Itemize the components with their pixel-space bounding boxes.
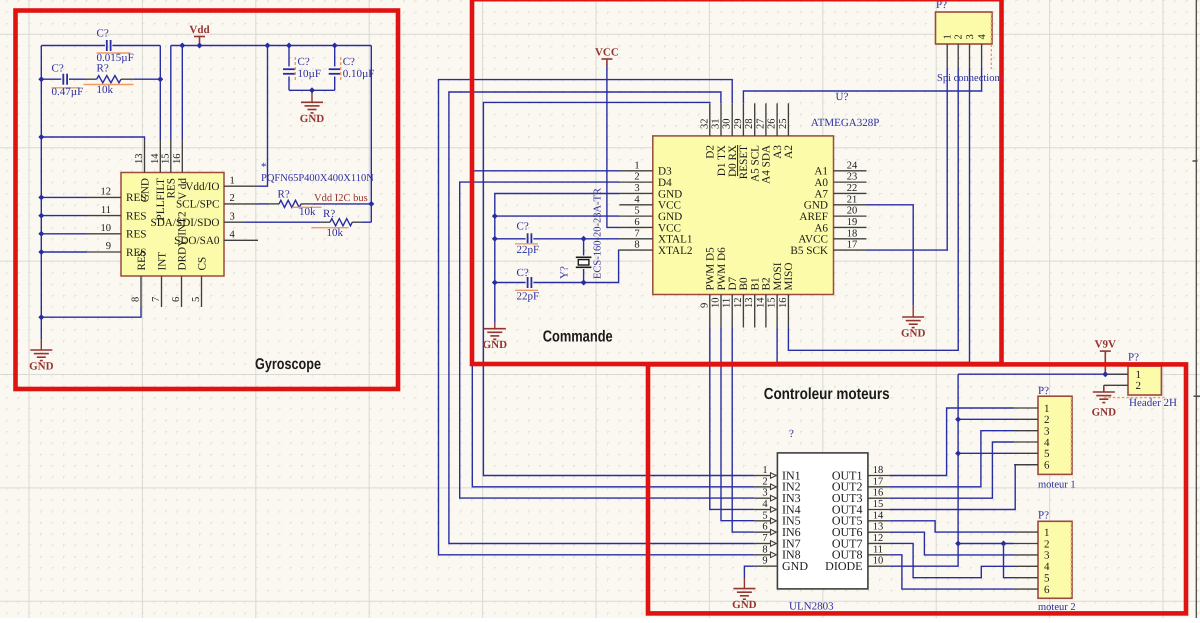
svg-text:8: 8 xyxy=(634,240,639,251)
frame Gyroscope section xyxy=(16,11,399,390)
svg-text:Vdd I2C bus: Vdd I2C bus xyxy=(314,193,368,204)
svg-text:32: 32 xyxy=(699,119,710,130)
transistor array ULN2803 body xyxy=(777,453,868,589)
junction dots moteurs xyxy=(955,416,961,422)
resistor R? 10k (SCL pullup) xyxy=(268,203,279,205)
svg-text:7: 7 xyxy=(634,228,639,239)
svg-text:6: 6 xyxy=(634,217,639,228)
svg-text:ECS-160-20-23A-TR: ECS-160-20-23A-TR xyxy=(593,188,604,279)
svg-text:17: 17 xyxy=(847,240,858,251)
capacitor C? 0.10uF xyxy=(334,46,336,67)
sheet border zone tick upper xyxy=(1193,160,1198,162)
svg-text:Spi connection: Spi connection xyxy=(937,73,1000,84)
frame Controleur moteurs section xyxy=(648,364,1186,613)
svg-text:PWM D5: PWM D5 xyxy=(705,247,717,291)
svg-text:A6: A6 xyxy=(814,222,828,234)
svg-text:RES: RES xyxy=(126,229,147,241)
wire OUT4 to moteur1 pin6 xyxy=(889,465,1038,510)
wire V9V to moteur1 pin5 xyxy=(958,452,1014,454)
svg-text:5: 5 xyxy=(1044,448,1050,460)
svg-text:C?: C? xyxy=(52,63,64,75)
svg-text:3: 3 xyxy=(230,211,235,222)
svg-text:C?: C? xyxy=(517,267,529,279)
svg-text:22: 22 xyxy=(847,183,858,194)
svg-text:RESET: RESET xyxy=(738,145,750,179)
wire Vdd rail right segment xyxy=(171,45,371,47)
svg-text:27: 27 xyxy=(755,119,766,130)
svg-text:2: 2 xyxy=(634,172,639,183)
svg-text:20: 20 xyxy=(847,206,858,217)
svg-text:6: 6 xyxy=(762,522,767,533)
gyro IC right pins 1 2 3 4 xyxy=(224,185,258,187)
svg-text:4: 4 xyxy=(977,34,988,40)
svg-text:16: 16 xyxy=(873,488,884,499)
svg-text:Commande: Commande xyxy=(543,329,613,346)
svg-text:26: 26 xyxy=(767,119,778,130)
svg-text:GND: GND xyxy=(139,178,151,202)
svg-text:28: 28 xyxy=(744,119,755,130)
svg-text:D1 TX: D1 TX xyxy=(716,145,728,176)
wire XTAL2 jog row with 22pF xyxy=(533,250,619,282)
svg-text:VCC: VCC xyxy=(658,222,681,234)
svg-text:5: 5 xyxy=(1044,573,1050,585)
svg-text:12: 12 xyxy=(873,533,884,544)
svg-text:MOSI: MOSI xyxy=(772,262,784,290)
svg-text:1: 1 xyxy=(634,160,639,171)
wire OUT8 to moteur2 pin6 xyxy=(889,555,1014,589)
svg-text:D3: D3 xyxy=(658,166,672,178)
svg-text:?: ? xyxy=(789,428,794,440)
svg-text:11: 11 xyxy=(873,544,883,555)
svg-text:A5 SCL: A5 SCL xyxy=(750,145,762,182)
wire OUT6 to moteur2 pin3 xyxy=(889,532,1014,555)
wire OUT5 to moteur2 pin1 xyxy=(889,521,1014,532)
ULN right pins OUT1-OUT8 DIODE xyxy=(868,475,890,477)
svg-text:B2: B2 xyxy=(761,277,773,290)
wire Vdd/IO pin1 to rail xyxy=(258,46,268,187)
svg-text:Y?: Y? xyxy=(559,266,571,279)
wire D3 net: pin1 to IN2 xyxy=(472,171,754,487)
svg-text:6: 6 xyxy=(171,297,182,302)
wire pin8 to ground rail xyxy=(41,307,141,317)
connector P? SPI xyxy=(936,12,993,44)
svg-text:15: 15 xyxy=(767,298,778,309)
connector P? moteur 2 xyxy=(1038,521,1072,598)
svg-text:VCC: VCC xyxy=(595,47,619,59)
svg-text:1: 1 xyxy=(762,465,767,476)
svg-text:B5 SCK: B5 SCK xyxy=(790,245,828,257)
svg-text:6: 6 xyxy=(1044,584,1050,596)
wire Vdd rail top (gyroscope) xyxy=(41,45,105,47)
svg-text:13: 13 xyxy=(134,154,145,165)
svg-text:5: 5 xyxy=(191,297,202,302)
wire D4 net: pin2 to IN3 xyxy=(460,182,755,498)
wire SCL/SPC pin2 row xyxy=(258,203,268,205)
svg-text:31: 31 xyxy=(711,119,722,130)
svg-text:GND: GND xyxy=(300,113,325,125)
wire pin14 vertical xyxy=(159,46,161,140)
svg-text:GND: GND xyxy=(658,188,682,200)
ground GND (decoupling) xyxy=(311,90,313,102)
wire MISO net pin16 to SPI pin2 xyxy=(788,68,958,350)
ground GND (gyroscope) xyxy=(40,317,42,339)
svg-text:Gyroscope: Gyroscope xyxy=(255,356,321,373)
svg-text:PQFN65P400X400X110N: PQFN65P400X400X110N xyxy=(261,173,374,184)
svg-text:3: 3 xyxy=(1044,550,1050,562)
svg-text:2: 2 xyxy=(1044,538,1050,550)
svg-text:A0: A0 xyxy=(814,177,828,189)
svg-text:V9V: V9V xyxy=(1095,339,1116,351)
svg-text:2: 2 xyxy=(1044,414,1050,426)
wire pin15 vertical xyxy=(170,46,172,140)
svg-text:14: 14 xyxy=(755,297,766,308)
svg-text:30: 30 xyxy=(722,119,733,130)
svg-text:3: 3 xyxy=(965,34,976,39)
svg-text:R?: R? xyxy=(323,208,335,220)
ground GND (ULN) xyxy=(743,578,745,589)
svg-text:GND: GND xyxy=(483,339,508,351)
svg-text:B0: B0 xyxy=(738,277,750,290)
ATmega right pins 24-17 xyxy=(834,170,867,172)
svg-text:GND: GND xyxy=(1092,407,1117,419)
svg-text:2: 2 xyxy=(230,193,235,204)
svg-text:1: 1 xyxy=(1044,527,1050,539)
svg-text:1: 1 xyxy=(1044,403,1050,415)
wire DIODE to V9V net xyxy=(889,374,958,566)
RESET pin overline xyxy=(737,145,739,176)
svg-text:A4 SDA: A4 SDA xyxy=(761,145,773,184)
svg-text:6: 6 xyxy=(1044,459,1050,471)
svg-text:P?: P? xyxy=(1128,352,1139,364)
wire filter row 0.47uF/10k xyxy=(41,78,61,80)
svg-text:C?: C? xyxy=(97,28,109,40)
svg-text:*: * xyxy=(261,161,267,173)
svg-text:5: 5 xyxy=(762,510,767,521)
wire moteur2 pin2 to pin5 xyxy=(1004,544,1015,578)
svg-text:9: 9 xyxy=(699,303,710,308)
svg-text:10k: 10k xyxy=(327,227,344,239)
svg-text:P?: P? xyxy=(1038,385,1049,397)
svg-text:DRDY/INT2: DRDY/INT2 xyxy=(176,211,188,270)
svg-text:A2: A2 xyxy=(783,145,795,159)
svg-text:DIODE: DIODE xyxy=(825,559,862,573)
svg-text:V dd: V dd xyxy=(177,178,189,200)
wire V9V to moteur1 pin2 xyxy=(958,418,1014,420)
svg-text:PWM D6: PWM D6 xyxy=(716,247,728,291)
svg-text:1: 1 xyxy=(943,34,954,39)
capacitor C? 10uF xyxy=(288,46,290,67)
svg-text:Header 2H: Header 2H xyxy=(1129,397,1177,409)
crystal Y? ECS-160-20-23A-TR xyxy=(583,239,585,256)
svg-text:14: 14 xyxy=(150,153,161,164)
wire MOSI net pin15 to SPI pin3 xyxy=(777,68,969,363)
svg-text:CS: CS xyxy=(196,257,208,271)
svg-text:10: 10 xyxy=(101,223,112,234)
svg-text:RES: RES xyxy=(166,178,178,199)
wire D1 TX net: pin31 to IN7 xyxy=(449,92,755,544)
svg-text:A1: A1 xyxy=(814,166,828,178)
junction dots Commande xyxy=(492,213,498,219)
wire pin13 net xyxy=(41,137,144,140)
gyro IC left pins 12 11 10 9 xyxy=(87,196,121,198)
svg-text:A3: A3 xyxy=(772,145,784,159)
svg-text:7: 7 xyxy=(151,297,162,302)
svg-text:0.47µF: 0.47µF xyxy=(52,86,84,98)
svg-text:B1: B1 xyxy=(750,277,762,290)
svg-text:0.10µF: 0.10µF xyxy=(343,68,375,80)
svg-text:15: 15 xyxy=(873,499,884,510)
svg-text:GND: GND xyxy=(782,559,808,573)
wire right vertical to I2C pullups xyxy=(370,46,372,223)
wire resistor to pin14 column xyxy=(133,78,160,80)
svg-text:2: 2 xyxy=(762,476,767,487)
svg-text:GND: GND xyxy=(901,328,926,340)
sheet border zone tick lower xyxy=(1194,395,1200,397)
svg-text:AVCC: AVCC xyxy=(798,234,828,246)
svg-text:XTAL2: XTAL2 xyxy=(658,245,693,257)
connector P? Header 2H xyxy=(1128,366,1161,395)
wire OUT2 to moteur1 pin3 xyxy=(889,431,1014,487)
svg-text:18: 18 xyxy=(847,228,858,239)
svg-text:18: 18 xyxy=(873,465,884,476)
svg-text:22pF: 22pF xyxy=(517,290,540,302)
frame Commande section xyxy=(472,0,1002,364)
svg-text:Vdd: Vdd xyxy=(189,24,209,36)
svg-text:7: 7 xyxy=(762,533,767,544)
wire SDI/SDO pin3 row xyxy=(244,221,320,223)
svg-text:24: 24 xyxy=(847,160,858,171)
ATmega top pins 32-25 xyxy=(709,103,711,136)
svg-text:16: 16 xyxy=(778,298,789,309)
svg-text:10k: 10k xyxy=(299,206,316,218)
sheet border right edge xyxy=(1195,0,1197,618)
svg-text:R?: R? xyxy=(97,63,109,75)
gyro IC top pins 13 14 15 16 xyxy=(144,140,146,173)
svg-text:4: 4 xyxy=(634,194,640,205)
svg-text:C?: C? xyxy=(517,221,529,233)
svg-text:10µF: 10µF xyxy=(298,68,321,80)
svg-text:10k: 10k xyxy=(97,84,114,96)
svg-text:A7: A7 xyxy=(814,188,828,200)
ULN left pins IN1-IN8 GND xyxy=(755,475,771,477)
svg-text:P?: P? xyxy=(936,0,947,11)
svg-text:ULN2803: ULN2803 xyxy=(789,601,834,613)
svg-text:MISO: MISO xyxy=(783,263,795,291)
wire D0 RX net: pin30 to IN8 xyxy=(439,80,755,555)
wire XTAL1 row with 22pF xyxy=(495,238,526,240)
ground GND (Commande) xyxy=(494,323,496,329)
wire VCC net to pin6 xyxy=(607,66,620,227)
svg-text:3: 3 xyxy=(762,488,767,499)
svg-text:GND: GND xyxy=(732,599,757,611)
svg-text:D4: D4 xyxy=(658,177,672,189)
wire GND pin21 to ground xyxy=(867,205,914,306)
svg-text:22pF: 22pF xyxy=(517,244,540,256)
svg-text:C?: C? xyxy=(298,56,310,68)
wire OUT3 to moteur1 pin4 xyxy=(889,442,1014,498)
svg-text:D2: D2 xyxy=(705,145,717,159)
svg-text:moteur 1: moteur 1 xyxy=(1038,480,1076,491)
svg-text:GND: GND xyxy=(804,200,828,212)
gyro IC bottom pins 8 7 6 5 xyxy=(140,276,142,307)
svg-text:4: 4 xyxy=(1044,561,1050,573)
resistor R? 10k (SDA pullup) xyxy=(320,221,330,223)
wire D2 net: pin32 to IN1 xyxy=(483,102,754,475)
svg-text:12: 12 xyxy=(101,187,112,198)
ground GND (ATmega right) xyxy=(912,305,914,317)
connector P? moteur 1 xyxy=(1038,396,1072,474)
wire PWM D6 pin10 to IN5 xyxy=(721,328,755,521)
svg-text:P?: P? xyxy=(1038,510,1049,522)
svg-text:4: 4 xyxy=(1044,437,1050,449)
svg-text:29: 29 xyxy=(733,119,744,130)
svg-text:15: 15 xyxy=(160,154,171,165)
wire V9V net to header pin1 xyxy=(958,373,1128,375)
svg-text:9: 9 xyxy=(762,556,767,567)
svg-text:8: 8 xyxy=(131,297,142,302)
wire ULN GND pin9 xyxy=(744,566,754,578)
svg-text:13: 13 xyxy=(744,298,755,309)
svg-text:4: 4 xyxy=(762,499,768,510)
svg-text:RES: RES xyxy=(136,250,148,271)
resistor R? 10k (filter) xyxy=(85,78,97,80)
svg-text:D7: D7 xyxy=(727,276,739,290)
wire OUT7 to moteur2 pin4 xyxy=(889,543,1014,577)
svg-text:XTAL1: XTAL1 xyxy=(658,234,693,246)
svg-text:INT: INT xyxy=(156,252,168,271)
capacitor C? 0.015uF xyxy=(106,40,108,51)
svg-text:AREF: AREF xyxy=(799,211,828,223)
svg-text:Vdd/IO: Vdd/IO xyxy=(185,181,219,193)
ground GND (header) xyxy=(1103,385,1105,392)
svg-text:13: 13 xyxy=(873,522,884,533)
svg-text:1: 1 xyxy=(230,175,235,186)
svg-text:4: 4 xyxy=(230,230,236,241)
svg-text:14: 14 xyxy=(873,510,884,521)
svg-text:19: 19 xyxy=(847,217,858,228)
wire decoupling bottom xyxy=(289,89,335,91)
svg-text:11: 11 xyxy=(722,298,733,308)
svg-text:12: 12 xyxy=(733,298,744,309)
svg-text:2: 2 xyxy=(1136,380,1142,392)
svg-text:3: 3 xyxy=(634,183,639,194)
wire RESET net: pin29 to SPI pin4 xyxy=(743,68,981,103)
wire PWM D5 pin9 to IN4 xyxy=(710,328,755,510)
svg-text:RES: RES xyxy=(126,210,147,222)
wire GND net left (Commande) xyxy=(495,194,620,323)
wire B5 SCK pin17 to SPI pin1 xyxy=(867,68,948,250)
wire OUT1 to moteur1 pin1 xyxy=(889,408,1014,476)
op-amp U? gyroscope IC body xyxy=(121,173,224,277)
svg-text:2: 2 xyxy=(954,34,965,39)
wire pin16 vertical xyxy=(181,46,183,140)
svg-text:17: 17 xyxy=(873,476,884,487)
svg-text:25: 25 xyxy=(778,119,789,130)
svg-text:9: 9 xyxy=(106,241,111,252)
wire gyro left pins bus xyxy=(41,196,87,198)
svg-text:Controleur moteurs: Controleur moteurs xyxy=(764,386,890,403)
svg-text:8: 8 xyxy=(762,544,767,555)
capacitor C? 0.47uF xyxy=(62,74,64,85)
svg-text:VCC: VCC xyxy=(658,200,681,212)
svg-text:23: 23 xyxy=(847,172,858,183)
svg-text:0.015µF: 0.015µF xyxy=(97,52,134,64)
wire GND pin5 stub xyxy=(495,215,620,217)
svg-text:10: 10 xyxy=(711,298,722,309)
svg-text:ATMEGA328P: ATMEGA328P xyxy=(811,117,879,129)
svg-text:R?: R? xyxy=(278,189,290,201)
wire left loop vertical (gyroscope) xyxy=(40,46,42,318)
microcontroller U1 ATMEGA328P body xyxy=(653,136,834,295)
junction dots gyroscope xyxy=(38,76,44,82)
svg-text:21: 21 xyxy=(847,194,858,205)
svg-text:C?: C? xyxy=(343,56,355,68)
wire V9V to moteur2 pin2 xyxy=(958,543,1014,545)
svg-text:5: 5 xyxy=(634,206,639,217)
ATmega bottom pins 9-16 xyxy=(709,295,711,328)
svg-text:16: 16 xyxy=(172,154,183,165)
svg-text:U?: U? xyxy=(836,91,849,103)
ATmega left pins 1-8 xyxy=(619,170,652,172)
svg-text:GND: GND xyxy=(29,361,54,373)
svg-text:3: 3 xyxy=(1044,425,1050,437)
wire D7 pin11 to IN6 xyxy=(732,328,755,533)
svg-text:10: 10 xyxy=(873,556,884,567)
svg-text:11: 11 xyxy=(101,205,111,216)
svg-text:GND: GND xyxy=(658,211,682,223)
